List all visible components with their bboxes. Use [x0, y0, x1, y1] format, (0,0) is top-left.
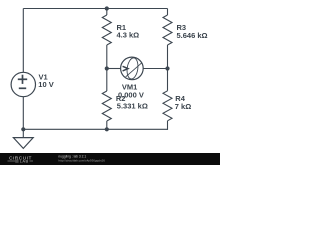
node mid-right [165, 66, 169, 70]
wire voltmeter to mid-right node [143, 68, 167, 70]
svg-text:LAB: LAB [20, 159, 29, 164]
wire left vertical to V1 [22, 9, 24, 73]
voltage source V1 [11, 72, 35, 96]
node top junction [105, 6, 109, 10]
watermark footer bar [0, 153, 220, 165]
wire R4 bottom lead [167, 121, 169, 130]
ground [13, 129, 33, 148]
wire R2 top lead [106, 69, 108, 92]
wire right top lead into R3 [167, 9, 169, 16]
svg-text:5.331 kΩ: 5.331 kΩ [117, 102, 148, 111]
node bottom-left ground [21, 127, 25, 131]
voltmeter VM1 [121, 57, 144, 80]
wire R1 top lead [106, 9, 108, 16]
svg-text:0.000 V: 0.000 V [118, 90, 144, 99]
resistor R3 [163, 15, 172, 45]
node bottom-mid [105, 127, 109, 131]
svg-text:4.3 kΩ: 4.3 kΩ [117, 31, 140, 40]
wire V1 bottom to ground node [22, 97, 24, 130]
wire R4 top lead [167, 69, 169, 91]
wire mid-left node to voltmeter [107, 68, 121, 70]
wire top horizontal [23, 8, 167, 10]
resistor R1 [102, 15, 111, 45]
wire R3 bottom to mid-right node [167, 45, 169, 69]
resistor R2 [102, 91, 111, 121]
svg-text:7 kΩ: 7 kΩ [175, 102, 191, 111]
wire R2 bottom lead [106, 121, 108, 130]
svg-text:10 V: 10 V [38, 80, 53, 89]
node mid-left [105, 66, 109, 70]
svg-text:5.646 kΩ: 5.646 kΩ [177, 31, 208, 40]
wire bottom horizontal [23, 128, 167, 130]
svg-text:http://circuitlab.com/c4p936gq: http://circuitlab.com/c4p936gqdn26 [58, 159, 105, 163]
wire R1 bottom to mid-left node [106, 45, 108, 69]
resistor R4 [163, 91, 172, 121]
